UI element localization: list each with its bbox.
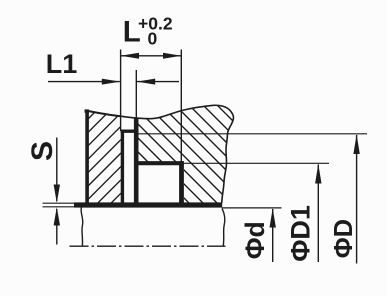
dimension L1: right leader + arrow pointing left — [137, 81, 179, 83]
dimension Phi-d: dim line + up arrowhead — [272, 209, 274, 262]
dimension L: extension lines — [120, 50, 122, 132]
dimension Phi-D: extension line — [138, 133, 367, 135]
svg-text:L1: L1 — [46, 49, 78, 79]
dimension L: right arrowhead — [163, 53, 181, 59]
right bottom break line — [222, 208, 225, 246]
dimension L1: left leader + arrow pointing right — [48, 81, 120, 83]
dimension L1: right extension line — [135, 70, 137, 118]
right block (housing) hatching \ — [65, 93, 251, 209]
groove middle wall (thick vertical, housing left face) — [134, 118, 139, 206]
left block top edge — [85, 110, 121, 116]
left bottom break line — [81, 207, 83, 246]
dimension Phi-D: dim line + up arrowhead — [356, 135, 358, 264]
groove left wall (thick) — [121, 130, 124, 206]
dimension S: upper dim line + down arrowhead — [56, 138, 58, 202]
svg-text:S: S — [26, 141, 59, 161]
housing wavy top break edge — [121, 105, 234, 118]
dimension L: dim line — [121, 55, 182, 57]
dimension L: left arrowhead — [121, 53, 139, 59]
centerline (dash-dot) — [70, 245, 226, 247]
left block left edge (thick) — [85, 110, 89, 203]
housing wavy right break edge — [222, 118, 234, 203]
svg-text:ΦD1: ΦD1 — [286, 205, 316, 262]
dimension S: lower dim line + up arrowhead — [56, 209, 58, 245]
groove step bar (thick, at PhiD level) — [121, 129, 139, 132]
svg-text:Φd: Φd — [240, 221, 270, 259]
dimension Phi-D1: dim line + up arrowhead — [317, 165, 319, 263]
S extension thin lines — [43, 202, 77, 204]
left block (gland) hatching / — [4, 100, 214, 203]
left block top corner nub — [85, 109, 89, 112]
svg-text:ΦD: ΦD — [330, 219, 358, 258]
svg-text:0: 0 — [148, 28, 158, 48]
seal square right wall (thick) — [179, 161, 184, 206]
bottom band (thick black bar) — [74, 202, 222, 207]
dimension Phi-D1: extension line — [184, 162, 329, 164]
dimension Phi-d: extension line — [222, 207, 282, 209]
seal square top bar (thick, at PhiD1 level) — [134, 161, 184, 165]
